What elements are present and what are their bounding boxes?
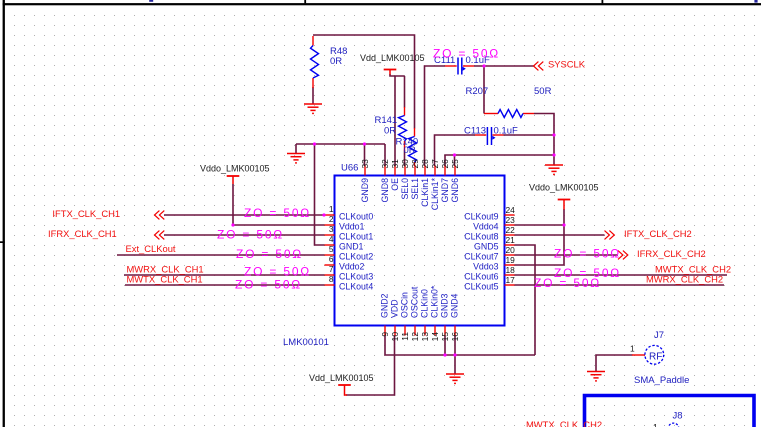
svg-text:5: 5 [329,244,334,254]
svg-text:CLKin1: CLKin1 [420,178,430,207]
svg-text:Vddo1: Vddo1 [339,222,365,232]
svg-text:18: 18 [506,265,516,275]
svg-text:9: 9 [380,332,390,337]
svg-text:CLKout6: CLKout6 [464,272,498,282]
svg-text:0.1uF: 0.1uF [494,126,518,137]
svg-text:CLKout1: CLKout1 [339,232,373,242]
svg-text:GND3: GND3 [440,293,450,318]
svg-text:32: 32 [380,159,390,169]
svg-text:50R: 50R [534,86,552,97]
svg-text:29: 29 [410,159,420,169]
svg-text:VDD: VDD [390,299,400,318]
svg-text:1: 1 [630,343,635,353]
svg-text:17: 17 [506,275,516,285]
svg-text:J7: J7 [654,330,664,341]
svg-text:Vddo_LMK00105: Vddo_LMK00105 [529,183,599,193]
svg-text:GND8: GND8 [380,178,390,203]
svg-text:OE: OE [390,178,400,191]
svg-text:GND6: GND6 [450,178,460,203]
svg-text:ZO = 50Ω: ZO = 50Ω [235,278,302,292]
svg-text:CLKout8: CLKout8 [464,232,498,242]
svg-text:C113: C113 [464,126,486,137]
svg-text:Ext_CLKout: Ext_CLKout [126,243,176,254]
svg-text:Vddo4: Vddo4 [473,222,499,232]
svg-text:0R: 0R [404,145,416,156]
svg-text:1: 1 [653,422,658,427]
svg-text:IFRX_CLK_CH1: IFRX_CLK_CH1 [48,228,117,239]
svg-text:IFTX_CLK_CH1: IFTX_CLK_CH1 [52,208,120,219]
svg-text:CLKout4: CLKout4 [339,282,373,292]
svg-text:ZO = 50Ω: ZO = 50Ω [534,276,601,290]
svg-text:13: 13 [420,332,430,342]
svg-text:ZO = 50Ω: ZO = 50Ω [217,228,284,242]
svg-text:GND9: GND9 [360,178,370,203]
svg-text:ZO = 50Ω: ZO = 50Ω [244,206,311,220]
svg-text:CLKout5: CLKout5 [464,282,498,292]
svg-text:0R: 0R [384,126,396,137]
svg-text:27: 27 [430,159,440,169]
svg-text:OSCin: OSCin [400,292,410,318]
svg-text:IFTX_CLK_CH2: IFTX_CLK_CH2 [624,228,692,239]
svg-text:GND5: GND5 [474,242,499,252]
svg-text:28: 28 [420,159,430,169]
svg-text:GND4: GND4 [450,293,460,318]
svg-text:23: 23 [506,215,516,225]
svg-text:GND2: GND2 [380,293,390,318]
svg-text:8: 8 [329,274,334,284]
svg-text:MWTX_CLK_CH1: MWTX_CLK_CH1 [127,274,203,285]
svg-text:MWRX_CLK_CH2: MWRX_CLK_CH2 [646,274,723,285]
svg-text:CLKout7: CLKout7 [464,252,498,262]
svg-text:19: 19 [506,255,516,265]
svg-text:ZO = 50Ω: ZO = 50Ω [244,265,311,279]
svg-text:R207: R207 [466,86,489,97]
svg-text:3: 3 [329,224,334,234]
svg-text:11: 11 [400,332,410,341]
svg-text:4: 4 [329,234,334,244]
svg-text:26: 26 [440,159,450,169]
svg-text:SYSCLK: SYSCLK [548,59,586,70]
svg-text:SEL1: SEL1 [410,178,420,200]
svg-text:IFRX_CLK_CH2: IFRX_CLK_CH2 [637,248,706,259]
svg-text:21: 21 [506,235,516,245]
svg-text:15: 15 [440,332,450,342]
svg-text:CLKout0: CLKout0 [339,212,373,222]
svg-text:30: 30 [400,159,410,169]
svg-text:CLKout9: CLKout9 [464,212,498,222]
svg-text:16: 16 [450,332,460,342]
svg-text:25: 25 [450,159,460,169]
svg-text:OSCout: OSCout [410,286,420,318]
svg-text:LMK00101: LMK00101 [283,337,329,348]
svg-text:Vdd_LMK00105: Vdd_LMK00105 [360,53,425,63]
svg-text:Vddo_LMK00105: Vddo_LMK00105 [200,164,270,174]
svg-text:RF: RF [649,352,662,363]
svg-text:Vddo2: Vddo2 [339,262,365,272]
svg-text:CLKin0: CLKin0 [420,289,430,318]
svg-text:Vddo3: Vddo3 [473,262,499,272]
svg-text:0R: 0R [330,56,342,67]
svg-text:GND7: GND7 [440,178,450,203]
svg-text:2: 2 [329,214,334,224]
svg-text:10: 10 [390,332,400,342]
svg-text:20: 20 [506,245,516,255]
svg-text:ZO = 50Ω: ZO = 50Ω [236,247,303,261]
svg-text:6: 6 [329,254,334,264]
svg-text:12: 12 [410,332,420,342]
svg-text:CLKin0*: CLKin0* [430,285,440,318]
svg-text:SMA_Paddle: SMA_Paddle [634,375,689,386]
svg-text:24: 24 [506,205,516,215]
svg-text:R141: R141 [375,115,398,126]
svg-text:CLKout3: CLKout3 [339,272,373,282]
svg-text:Vdd_LMK00105: Vdd_LMK00105 [309,373,374,383]
svg-text:33: 33 [360,159,370,169]
svg-text:ZO = 50Ω: ZO = 50Ω [433,47,500,61]
svg-text:31: 31 [390,159,400,169]
svg-text:CLKin1*: CLKin1* [430,177,440,210]
svg-text:GND1: GND1 [339,242,364,252]
svg-text:MWTX_CLK_CH2: MWTX_CLK_CH2 [526,419,602,427]
svg-text:ZO = 50Ω: ZO = 50Ω [554,247,621,261]
svg-text:J8: J8 [673,411,683,422]
svg-text:U66: U66 [341,163,358,174]
svg-text:7: 7 [329,264,334,274]
svg-text:1: 1 [329,204,334,214]
svg-text:CLKout2: CLKout2 [339,252,373,262]
svg-text:SEL0: SEL0 [400,178,410,200]
svg-text:14: 14 [430,332,440,342]
svg-text:22: 22 [506,225,516,235]
